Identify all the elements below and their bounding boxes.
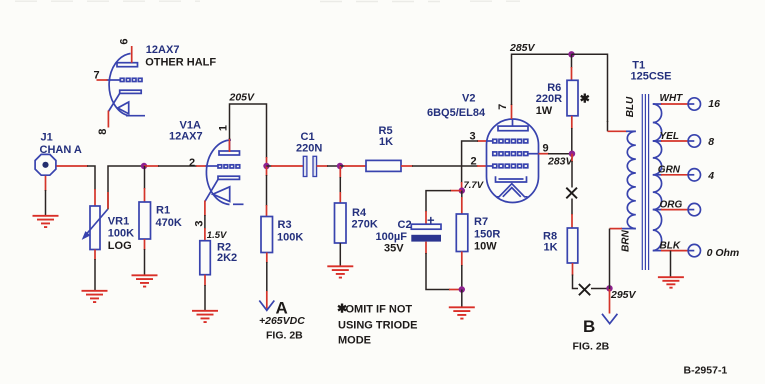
svg-text:100K: 100K bbox=[108, 228, 134, 240]
svg-text:7: 7 bbox=[94, 69, 100, 81]
transformer T1 125CSE bbox=[608, 60, 740, 290]
svg-text:0 Ohm: 0 Ohm bbox=[707, 247, 740, 259]
wire J1 sleeve to ground bbox=[45, 176, 47, 216]
wire junction to C1 left plate bbox=[267, 165, 304, 167]
cathode bar bbox=[120, 90, 142, 93]
svg-text:B: B bbox=[583, 317, 595, 336]
wire R4 top lead bbox=[339, 166, 341, 203]
resistor R1 470K bbox=[139, 202, 182, 239]
wire R1 top lead bbox=[144, 166, 146, 202]
resistor R2 2K2 bbox=[200, 241, 237, 275]
svg-text:VR1: VR1 bbox=[108, 216, 129, 228]
tap ORG bbox=[653, 209, 695, 211]
svg-text:R4: R4 bbox=[352, 207, 367, 219]
wire C1 right plate to R5 node bbox=[317, 165, 340, 167]
resistor R6 220R 1W bbox=[536, 80, 578, 117]
svg-text:CHAN A: CHAN A bbox=[40, 144, 82, 156]
plate bar bbox=[498, 126, 528, 131]
svg-text:16: 16 bbox=[708, 98, 720, 110]
grid lead bbox=[107, 79, 121, 81]
tap WHT bbox=[653, 103, 695, 105]
ground at R7/C2 bbox=[449, 307, 475, 318]
note OMIT IF NOT USING TRIODE MODE bbox=[337, 301, 417, 346]
heater stub right bbox=[233, 203, 244, 205]
wire R3 bottom to arrow A bbox=[266, 253, 268, 309]
svg-text:R1: R1 bbox=[156, 205, 170, 217]
svg-text:C1: C1 bbox=[301, 131, 315, 143]
svg-text:+265VDC: +265VDC bbox=[259, 315, 305, 327]
arrow B to FIG 2B bbox=[602, 314, 617, 324]
svg-text:✱: ✱ bbox=[580, 92, 590, 106]
terminal 0 ohm bbox=[688, 244, 700, 256]
pin 8 stub of other half bbox=[107, 111, 109, 128]
svg-text:295V: 295V bbox=[610, 289, 637, 301]
wire J1 output to VR1 top bbox=[57, 166, 96, 206]
terminal 16 ohm bbox=[688, 98, 700, 110]
ground at R4 bbox=[327, 266, 353, 277]
svg-text:C2: C2 bbox=[398, 219, 412, 231]
ground at BLK bbox=[658, 277, 684, 288]
wire R2 bottom to ground bbox=[204, 275, 206, 311]
svg-text:6BQ5/EL84: 6BQ5/EL84 bbox=[427, 107, 486, 119]
wire junction down to R3 bbox=[266, 166, 268, 217]
wire bus junction to V1A grid pin 2 bbox=[144, 165, 206, 167]
grid g2 row (pin 9) bbox=[493, 152, 528, 156]
plate bar bbox=[117, 63, 138, 67]
cathode lead diagonal bbox=[108, 93, 119, 111]
envelope bbox=[487, 119, 539, 203]
svg-text:7.7V: 7.7V bbox=[464, 180, 484, 191]
svg-text:OTHER HALF: OTHER HALF bbox=[145, 56, 216, 68]
wire R8 bottom to 295V node bbox=[573, 263, 610, 289]
node junction 283V bbox=[569, 151, 575, 157]
svg-text:220R: 220R bbox=[536, 93, 562, 105]
wire VR1 wiper to main bus bbox=[108, 166, 144, 210]
BRN lead wire bbox=[610, 229, 636, 289]
wire 285V rail to transformer BLU bbox=[572, 54, 608, 122]
wire junction to R5 left bbox=[340, 165, 366, 167]
triode 12AX7 other half (top left) bbox=[107, 54, 146, 116]
svg-text:100K: 100K bbox=[277, 231, 303, 243]
grid g1 row (pin 2) bbox=[493, 164, 528, 168]
svg-text:BLU: BLU bbox=[625, 96, 636, 117]
node junction at R3 top / plate bbox=[263, 163, 269, 169]
svg-text:220N: 220N bbox=[296, 142, 322, 154]
terminal 8 ohm bbox=[688, 135, 700, 147]
potentiometer VR1 100K LOG bbox=[83, 206, 134, 252]
svg-text:R8: R8 bbox=[543, 230, 557, 242]
wire R6 bottom to 283V node bbox=[571, 116, 573, 154]
svg-text:B-2957-1: B-2957-1 bbox=[684, 365, 728, 377]
svg-text:WHT: WHT bbox=[660, 93, 684, 104]
cathode lead diagonal bbox=[205, 179, 218, 201]
svg-text:3: 3 bbox=[194, 220, 206, 226]
heater bbox=[496, 184, 528, 197]
ground at VR1 bbox=[82, 291, 108, 302]
svg-text:BRN: BRN bbox=[620, 229, 631, 251]
arrow A to FIG 2B bbox=[259, 301, 274, 311]
svg-text:283V: 283V bbox=[547, 155, 574, 167]
BLU lead wire bbox=[608, 121, 636, 131]
svg-text:9: 9 bbox=[543, 143, 549, 155]
node junction at R4 top bbox=[337, 163, 343, 169]
envelope arc bbox=[206, 140, 231, 205]
svg-text:12AX7: 12AX7 bbox=[146, 44, 180, 56]
svg-text:6: 6 bbox=[119, 38, 131, 44]
svg-text:7: 7 bbox=[497, 104, 509, 110]
pin 6 stub of other half bbox=[131, 46, 133, 63]
svg-text:R3: R3 bbox=[278, 219, 292, 231]
tap GRN bbox=[653, 174, 695, 176]
secondary winding bbox=[653, 104, 662, 251]
tap YEL bbox=[653, 140, 695, 142]
plate lead bbox=[229, 141, 231, 151]
X cut mark lower bbox=[579, 284, 590, 295]
wire R4 bottom to ground bbox=[339, 243, 341, 266]
heater stub right bbox=[126, 115, 145, 117]
wire 7.7V node to C2 top bbox=[426, 191, 462, 224]
capacitor C2 100uF 35V electrolytic bbox=[376, 213, 442, 255]
grid row leads bbox=[487, 140, 493, 142]
connector J1 input jack bbox=[35, 132, 82, 176]
core laminations bbox=[642, 94, 648, 270]
node junction at ground bus bbox=[459, 286, 465, 292]
wire V1A plate to 205V node bbox=[230, 104, 267, 166]
svg-text:2: 2 bbox=[189, 157, 195, 169]
wire C2 bottom to ground bus bbox=[426, 242, 462, 290]
svg-text:USING TRIODE: USING TRIODE bbox=[338, 319, 417, 331]
wire V1A cathode to R2 bbox=[204, 201, 206, 241]
svg-text:FIG. 2B: FIG. 2B bbox=[573, 341, 610, 353]
svg-text:1K: 1K bbox=[544, 242, 558, 254]
svg-text:R7: R7 bbox=[474, 216, 488, 228]
pentode V2 6BQ5/EL84 bbox=[487, 119, 539, 203]
terminal ORG bbox=[688, 203, 700, 215]
pin 7 stub of other half bbox=[97, 79, 108, 81]
svg-text:OMIT IF NOT: OMIT IF NOT bbox=[346, 304, 413, 316]
svg-text:205V: 205V bbox=[229, 92, 256, 104]
wire BLK tap to ground bbox=[670, 251, 672, 277]
svg-text:35V: 35V bbox=[384, 243, 404, 255]
svg-text:100µF: 100µF bbox=[376, 231, 408, 243]
svg-text:150R: 150R bbox=[474, 228, 500, 240]
resistor R3 100K bbox=[261, 217, 303, 253]
svg-text:MODE: MODE bbox=[338, 335, 371, 347]
grid dashes bbox=[120, 78, 142, 81]
wire R1 bottom to ground bbox=[144, 239, 146, 275]
wire R5 right to V2 grid pin 2 bbox=[401, 165, 487, 167]
svg-text:12AX7: 12AX7 bbox=[169, 130, 203, 142]
resistor R5 1K bbox=[366, 125, 401, 171]
plate bar bbox=[219, 151, 240, 155]
node junction 7.7V bbox=[459, 187, 465, 193]
grid lead bbox=[206, 165, 219, 167]
cathode bracket bbox=[496, 176, 527, 182]
resistor R4 270K bbox=[335, 203, 378, 243]
svg-text:2: 2 bbox=[471, 156, 477, 168]
svg-text:470K: 470K bbox=[156, 217, 182, 229]
wire node down to arrow B bbox=[609, 288, 611, 313]
grid g3 row (pin 3) bbox=[493, 139, 528, 143]
plate lead bbox=[512, 119, 514, 126]
grid dashes bbox=[218, 165, 240, 168]
svg-text:4: 4 bbox=[707, 170, 714, 182]
svg-text:270K: 270K bbox=[352, 219, 378, 231]
svg-text:1K: 1K bbox=[379, 136, 393, 148]
svg-text:ORG: ORG bbox=[660, 199, 683, 210]
envelope arc bbox=[109, 54, 130, 116]
svg-text:LOG: LOG bbox=[108, 240, 132, 252]
svg-text:J1: J1 bbox=[41, 132, 53, 144]
svg-text:8: 8 bbox=[97, 129, 109, 135]
svg-text:285V: 285V bbox=[509, 42, 536, 54]
wire V2 pin 9 (screen) to 283V node bbox=[539, 153, 573, 155]
wire R7 bottom lead bbox=[461, 252, 463, 290]
wire V2 pin 3 (cathode) to 7.7V node bbox=[462, 141, 487, 191]
ground at J1 bbox=[33, 216, 59, 227]
svg-text:1: 1 bbox=[218, 125, 230, 131]
triode V1A 12AX7 bbox=[205, 140, 244, 205]
capacitor C1 220N bbox=[296, 131, 322, 177]
wire R7 top lead bbox=[461, 191, 463, 214]
svg-text:3: 3 bbox=[470, 131, 476, 143]
svg-text:GRN: GRN bbox=[658, 165, 681, 176]
svg-text:+: + bbox=[427, 213, 435, 228]
ground at R1 bbox=[132, 275, 158, 286]
svg-text:125CSE: 125CSE bbox=[631, 70, 672, 82]
svg-text:FIG. 2B: FIG. 2B bbox=[266, 329, 303, 341]
wire rail junction down to R6 bbox=[571, 54, 573, 80]
wire VR1 bottom to ground bbox=[94, 250, 96, 291]
tap BLK bbox=[653, 250, 695, 252]
scan artifact top edge bbox=[15, 0, 520, 2]
resistor R8 1K bbox=[543, 228, 578, 263]
primary winding bbox=[627, 131, 636, 228]
svg-text:1.5V: 1.5V bbox=[207, 230, 227, 241]
X cut mark upper bbox=[566, 188, 577, 199]
wire 283V node down to R8 bbox=[571, 154, 573, 228]
svg-text:2K2: 2K2 bbox=[217, 252, 237, 264]
svg-text:10W: 10W bbox=[474, 241, 497, 253]
node junction at R6 top bbox=[568, 51, 574, 57]
svg-text:1W: 1W bbox=[536, 105, 553, 117]
cathode bar bbox=[218, 176, 240, 179]
ground at R2 bbox=[192, 311, 218, 322]
terminal 4 ohm bbox=[688, 169, 700, 181]
resistor R7 150R 10W bbox=[456, 214, 500, 253]
heater triangle bbox=[213, 187, 230, 202]
svg-text:BLK: BLK bbox=[660, 240, 681, 251]
node junction at R1 top bbox=[141, 163, 147, 169]
heater triangle bbox=[118, 102, 129, 114]
wire node to ground bbox=[461, 290, 463, 308]
svg-text:YEL: YEL bbox=[660, 131, 679, 142]
node junction 295V bbox=[606, 285, 612, 291]
svg-text:8: 8 bbox=[708, 136, 714, 148]
svg-text:V2: V2 bbox=[462, 93, 475, 105]
wire V2 plate pin 7 to 285V rail bbox=[512, 54, 572, 119]
